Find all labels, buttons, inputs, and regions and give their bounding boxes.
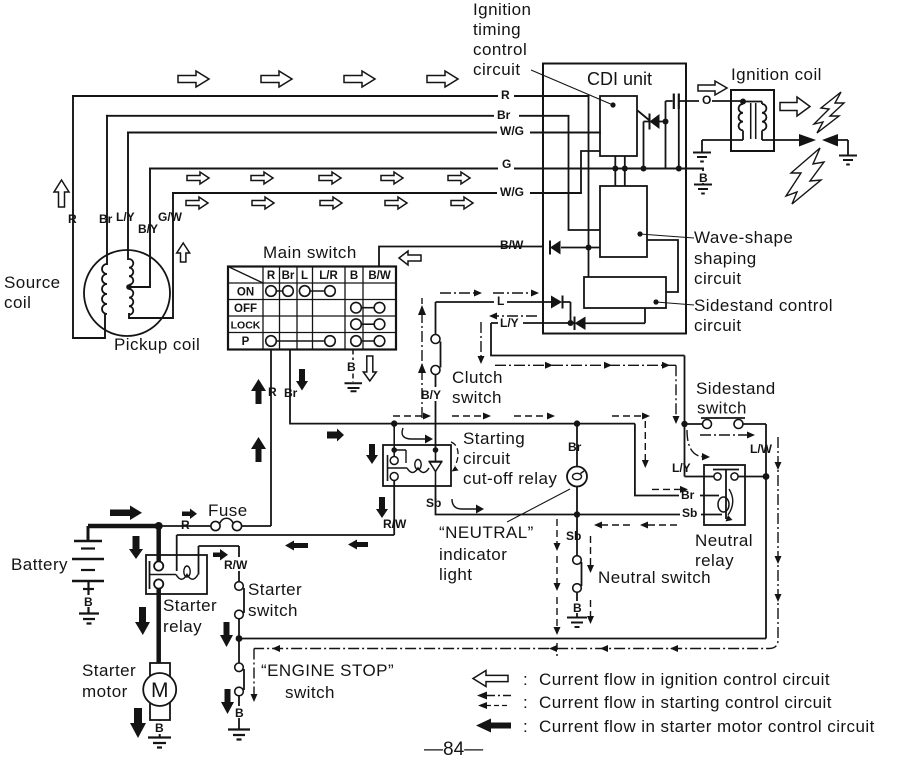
wire W/G horizontal upper (128, 132, 600, 134)
leader to wave-shape box (640, 234, 694, 238)
svg-text::: : (523, 717, 528, 736)
starter flow left arrows on R/W line (285, 541, 308, 551)
wire B/W internal (561, 247, 600, 249)
neutral relay contact bar (713, 470, 739, 520)
svg-text:Sidestand: Sidestand (696, 379, 776, 398)
ignition flow arrows row 1 (54, 71, 473, 262)
main switch contacts OFF row (351, 302, 362, 313)
wire O line to ignition coil (679, 100, 743, 102)
main switch table (228, 267, 396, 350)
lightning bolt lower (786, 148, 824, 204)
neutral switch (576, 515, 578, 556)
svg-text:L: L (301, 270, 308, 282)
wire R below main switch to fuse (270, 350, 272, 527)
wire box1 diagonal to diode (638, 111, 650, 121)
wire Br to neutral relay (635, 424, 719, 496)
wire G horizontal (150, 168, 703, 170)
ground B right of CDI (702, 169, 704, 185)
diode D2 on B/W line (549, 241, 551, 255)
wire G/W vertical to pickup coil (129, 193, 173, 318)
svg-text:Br: Br (568, 440, 582, 454)
svg-text:relay: relay (695, 551, 734, 570)
ground ENGINE STOP (228, 730, 250, 740)
starter relay feed thick (156, 526, 161, 561)
svg-text:circuit: circuit (694, 316, 742, 335)
starting circuit cut-off relay box (383, 445, 451, 486)
main switch column headers (231, 270, 391, 348)
wire diode to capacitor node (659, 101, 673, 122)
leader curve from label to relay (451, 442, 458, 466)
svg-text:Pickup coil: Pickup coil (114, 335, 200, 354)
svg-text::: : (523, 693, 528, 712)
node Br junction at relay (391, 420, 397, 426)
battery plates (72, 541, 104, 581)
svg-text:Current flow in ignition contr: Current flow in ignition control circuit (539, 670, 830, 689)
wire L/Y diode to box3 (586, 308, 646, 323)
svg-text:circuit: circuit (694, 269, 742, 288)
svg-text:Fuse: Fuse (208, 501, 248, 520)
svg-text:B/Y: B/Y (421, 388, 441, 402)
ignition coil box (731, 90, 774, 151)
svg-text:—84—: —84— (424, 739, 483, 760)
starter switch (235, 582, 244, 591)
fuse F1 (211, 521, 220, 530)
svg-text:Battery: Battery (11, 555, 68, 574)
svg-text:switch: switch (697, 399, 747, 418)
label Br at neutral relay (679, 488, 700, 501)
svg-text:R: R (68, 212, 77, 226)
svg-text:OFF: OFF (234, 303, 257, 315)
svg-text:P: P (242, 336, 250, 348)
CDI unit box (543, 64, 686, 334)
wire Br horizontal (107, 115, 569, 117)
main switch contacts P row (266, 336, 277, 347)
cut-off relay coil (388, 468, 430, 473)
spark gap arrows (799, 134, 816, 147)
diode D1 near box1 (649, 114, 651, 130)
svg-text:W/G: W/G (500, 124, 524, 138)
svg-text:B/W: B/W (500, 238, 524, 252)
svg-text:L/Y: L/Y (116, 210, 135, 224)
ignition flow left arrow above main switch (399, 251, 421, 265)
svg-text:Wave-shape: Wave-shape (694, 228, 793, 247)
starter relay box (146, 555, 207, 594)
node L/W junction (763, 473, 770, 480)
label R at fuse (179, 518, 194, 531)
svg-text:G/W: G/W (158, 210, 183, 224)
svg-text:Br: Br (282, 270, 295, 282)
neutral relay coil (718, 497, 729, 512)
svg-text:LOCK: LOCK (231, 320, 261, 332)
hook arrow into relay (402, 428, 425, 439)
battery bus thick wire (88, 524, 159, 529)
starter flow down arrows at ENGINE STOP (220, 622, 233, 647)
wire Br internal to box2 (569, 116, 601, 230)
svg-text:Main switch: Main switch (263, 243, 357, 262)
pickup coil winding (129, 259, 133, 285)
svg-text:Current flow in starter motor: Current flow in starter motor control ci… (539, 717, 875, 736)
svg-text:Clutch: Clutch (452, 368, 503, 387)
source coil winding (102, 259, 133, 315)
svg-text:G: G (502, 157, 511, 171)
ignition flow up arrow near R wire (54, 180, 69, 207)
leader to ignition timing box (531, 70, 613, 105)
svg-text:M: M (151, 679, 169, 702)
node pickup coil tap (126, 284, 132, 290)
wire fuse line (159, 525, 271, 527)
svg-text:L: L (497, 294, 504, 308)
ignition coil core (751, 103, 756, 139)
starting flow dashed arrows y416 (393, 416, 680, 656)
sidestand control circuit box (584, 277, 666, 308)
svg-text:ON: ON (237, 287, 254, 299)
wire Br below main switch (290, 350, 635, 424)
svg-text:shaping: shaping (694, 249, 757, 268)
ground main switch B (345, 383, 363, 391)
svg-text:circuit: circuit (463, 449, 511, 468)
svg-text:L/R: L/R (319, 270, 338, 282)
starter motor flow down arrow below relay (135, 607, 150, 635)
svg-text:switch: switch (452, 388, 502, 407)
svg-text:indicator: indicator (439, 545, 507, 564)
node battery junction (155, 522, 163, 530)
svg-text:Br: Br (497, 108, 511, 122)
svg-text:R: R (267, 270, 276, 282)
starter relay coil (150, 575, 199, 580)
svg-text:B: B (84, 595, 93, 609)
svg-text:Ignition: Ignition (473, 0, 531, 19)
wire L/Y return path to sidestand switch (491, 323, 685, 477)
wire L from CDI to clutch switch (436, 301, 552, 303)
ground right of spark gap (839, 156, 857, 165)
starter flow right arrow before R/W label (213, 549, 228, 561)
svg-text:Source: Source (4, 273, 61, 292)
wire starter relay coil to starter switch (199, 546, 240, 582)
starter flow small right arrow before fuse (182, 509, 197, 520)
starter flow down arrows at cut-off relay (366, 444, 378, 464)
ignition coil primary winding (702, 102, 743, 153)
starter motor (150, 663, 170, 720)
svg-text:R/W: R/W (383, 517, 407, 531)
wire R vertical left side (73, 96, 105, 338)
svg-text:Starter: Starter (248, 580, 302, 599)
wire B dashed to ground (352, 350, 354, 383)
svg-text:O: O (702, 93, 711, 107)
svg-text:motor: motor (82, 682, 128, 701)
svg-text:B: B (573, 601, 582, 615)
svg-text::: : (523, 670, 528, 689)
svg-text:L/W: L/W (750, 442, 773, 456)
svg-text:B: B (350, 270, 358, 282)
svg-text:Starting: Starting (463, 429, 525, 448)
wire Br vertical to source coil (106, 116, 108, 264)
wire W/G internal to box1 (581, 151, 600, 193)
wire R horizontal from source coil to CDI (73, 95, 589, 97)
svg-text:Sb: Sb (566, 529, 581, 543)
node Sb bulb junction (574, 511, 580, 517)
capacitor C1 (674, 94, 679, 110)
wire labels near CDI (494, 88, 712, 330)
svg-text:CDI unit: CDI unit (587, 69, 652, 89)
wire Sb cut-off relay to neutral relay (436, 486, 705, 515)
wire L/Y vertical to source coil (127, 133, 129, 260)
label B/Y (419, 387, 446, 401)
svg-text:“ENGINE STOP”: “ENGINE STOP” (261, 661, 394, 680)
ignition flow down arrow at main switch B (363, 356, 376, 381)
svg-text:relay: relay (163, 617, 202, 636)
wire L/Y from CDI (491, 322, 575, 324)
ignition coil secondary winding (743, 102, 799, 141)
cut-off relay diode (429, 461, 443, 463)
wire R internal drop (588, 96, 590, 248)
wave-shape shaping circuit box (600, 186, 647, 257)
svg-text:coil: coil (4, 293, 31, 312)
node Br bulb junction (574, 420, 580, 426)
svg-text:switch: switch (285, 683, 335, 702)
wire R/W from cut-off relay to starter relay (177, 481, 395, 556)
wire B/Y vertical to pickup coil tap (129, 169, 150, 288)
starter flow down arrow on Br wire (296, 369, 308, 391)
node ignition coil top (740, 99, 746, 105)
leader from label to bulb (507, 489, 570, 522)
node L/Y junction (568, 320, 574, 326)
node starter switch junction (236, 635, 243, 642)
svg-text:cut-off relay: cut-off relay (463, 469, 557, 488)
svg-text:Neutral: Neutral (695, 531, 753, 550)
svg-text:W/G: W/G (500, 185, 524, 199)
ignition flow up arrow near G/W wire (177, 243, 190, 262)
starter motor flow down arrow below motor (130, 708, 146, 738)
ENGINE STOP switch (235, 663, 244, 672)
leader to sidestand control box (656, 302, 694, 305)
ignition flow arrows row 3 (186, 197, 208, 209)
svg-text:Neutral switch: Neutral switch (598, 568, 711, 587)
svg-text:Ignition coil: Ignition coil (731, 65, 822, 84)
label R/W at starter switch (222, 557, 254, 571)
starter flow up arrows on R wire (251, 379, 266, 404)
starter flow right arrow on Br line (327, 429, 344, 442)
sidestand switch contacts (685, 423, 703, 425)
wire L/W down right side to bottom line (765, 477, 767, 639)
svg-text:R: R (268, 385, 277, 399)
starter motor flow down arrow at battery junction (129, 536, 143, 559)
svg-text:Starter: Starter (163, 596, 217, 615)
wire B/Y clutch to cut-off relay (435, 375, 437, 451)
ignition flow arrows row 2 (187, 172, 209, 184)
legend ignition flow arrow (473, 671, 508, 687)
svg-text:R: R (501, 88, 510, 102)
clutch switch (435, 302, 437, 335)
svg-text:Sb: Sb (682, 506, 697, 520)
wire box1 to box2 links (614, 156, 616, 186)
svg-text:Current flow in starting contr: Current flow in starting control circuit (539, 693, 832, 712)
ground neutral switch (567, 618, 587, 628)
wire L diode to L/Y node (563, 302, 571, 323)
svg-text:L/Y: L/Y (672, 461, 691, 475)
hook arrow at Sb (452, 499, 476, 509)
wire B/W drop to sidestand box (588, 248, 590, 278)
svg-text:timing: timing (473, 20, 521, 39)
wire B/W main switch to CDI (379, 247, 543, 267)
legend starter motor flow arrow (476, 719, 511, 733)
neutral relay box (704, 465, 745, 525)
cut-off relay contact (393, 424, 395, 456)
main switch contacts ON row (266, 286, 385, 347)
svg-text:Sb: Sb (426, 496, 441, 510)
wire box2 to box3 (647, 240, 678, 292)
wire capacitor to G line (678, 109, 680, 169)
wire thyristor drop to G (644, 122, 650, 169)
cut-off relay internal nodes (391, 447, 397, 453)
svg-text:light: light (439, 565, 472, 584)
svg-text:“NEUTRAL”: “NEUTRAL” (439, 523, 534, 542)
svg-text:B: B (347, 360, 356, 374)
wire bottom long line (239, 638, 766, 640)
svg-text:control: control (473, 40, 527, 59)
thick wire relay to starter motor (156, 589, 161, 664)
svg-text:B: B (699, 171, 708, 185)
svg-text:R: R (181, 518, 190, 532)
starter motor ground lead (159, 720, 161, 737)
svg-text:Br: Br (284, 386, 298, 400)
node junctions on G line (612, 166, 618, 172)
diode D4 on L/Y line (574, 317, 576, 331)
svg-text:L/Y: L/Y (500, 316, 519, 330)
ignition timing control circuit box (600, 96, 637, 156)
main switch contacts LOCK row (351, 319, 362, 330)
wire W/G horizontal lower (173, 192, 581, 194)
battery ground lead (87, 581, 89, 613)
svg-text:switch: switch (248, 601, 298, 620)
source coil circle (84, 250, 170, 336)
label Sb at neutral relay (680, 506, 701, 519)
svg-text:B/Y: B/Y (138, 222, 158, 236)
svg-text:Br: Br (99, 212, 113, 226)
lightning bolt upper (814, 92, 844, 133)
starting flow dash-dot arrows near CDI L line (254, 293, 778, 694)
legend starting flow arrow (486, 695, 511, 697)
svg-text:B/W: B/W (368, 270, 391, 282)
svg-text:R/W: R/W (224, 558, 248, 572)
svg-text:circuit: circuit (473, 60, 521, 79)
diode D3 on L line (551, 296, 562, 309)
ignition flow arrow at ignition coil (698, 81, 727, 95)
node sidestand junction (681, 421, 687, 427)
node B/W junction (586, 245, 592, 251)
svg-text:Starter: Starter (82, 661, 136, 680)
wire spark right to ground (838, 140, 848, 155)
svg-text:Sidestand control: Sidestand control (694, 296, 833, 315)
ground under ignition coil (693, 153, 711, 162)
ignition flow arrow at spark (780, 97, 810, 116)
node diode-capacitor (663, 119, 669, 125)
svg-text:B: B (155, 721, 164, 735)
starter motor flow arrow at battery bus (110, 506, 142, 521)
NEUTRAL indicator light bulb (576, 424, 578, 515)
svg-text:B: B (235, 706, 244, 720)
